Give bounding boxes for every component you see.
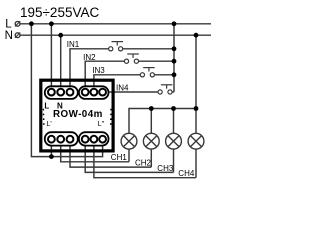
terminal circle N — [15, 33, 20, 38]
lamp E4 CH4 — [188, 133, 204, 149]
junction lamp bus 2 — [149, 106, 154, 111]
terminal circle L — [15, 21, 20, 26]
wire L' stub — [50, 139, 52, 156]
svg-text:CH2: CH2 — [135, 158, 152, 167]
wire IN3 right — [154, 74, 174, 76]
junction bus IN3 — [172, 72, 177, 77]
svg-text:IN3: IN3 — [92, 66, 105, 75]
svg-text:195÷255VAC: 195÷255VAC — [20, 5, 99, 20]
svg-text:L': L' — [47, 121, 52, 128]
terminal block top right — [79, 86, 109, 99]
wire N vertical to lamp 4 — [195, 35, 197, 133]
wire lamp 2 feed — [150, 109, 152, 134]
junction N terminal2 — [58, 33, 63, 38]
svg-text:L: L — [44, 102, 49, 111]
svg-text:L'': L'' — [98, 121, 105, 128]
junction N vertical — [194, 33, 199, 38]
pushbutton S1 IN1 — [109, 42, 123, 51]
wire N line — [20, 34, 211, 36]
junction bus IN1 — [172, 46, 177, 51]
wire lamp bus — [129, 109, 196, 134]
junction lamp bus N — [194, 106, 199, 111]
wire IN2 right — [139, 60, 175, 62]
junction L' — [49, 154, 54, 159]
junction lamp bus 3 — [171, 106, 176, 111]
wire IN1 right — [123, 48, 174, 50]
dashed housing line right — [110, 109, 112, 126]
wire left L feed down to L' — [31, 24, 102, 157]
wire L bus vertical — [173, 24, 175, 92]
svg-text:CH1: CH1 — [111, 153, 128, 162]
junction bus IN2 — [172, 59, 177, 64]
dashed housing line left — [42, 109, 45, 126]
junction L left — [29, 21, 34, 26]
wire lamp 1 out — [128, 149, 130, 162]
svg-text:CH4: CH4 — [178, 169, 195, 178]
wire CH1 — [61, 139, 129, 162]
wire lamp 4 out — [195, 149, 197, 178]
wire N to terminal 2 — [60, 35, 62, 92]
pushbutton S4 IN4 — [158, 85, 172, 94]
terminal block top left — [45, 86, 78, 99]
terminal block bottom right — [79, 132, 109, 145]
lamp E1 CH1 — [121, 133, 137, 149]
junction L terminal1 — [49, 21, 54, 26]
lamp E2 CH2 — [143, 133, 159, 149]
wire IN2 left — [85, 61, 124, 92]
svg-text:CH3: CH3 — [157, 164, 174, 173]
wire CH3 — [85, 139, 173, 172]
wire IN4 right — [172, 91, 174, 93]
svg-text:IN4: IN4 — [116, 83, 129, 92]
svg-text:IN1: IN1 — [67, 40, 80, 49]
wire CH2 — [70, 139, 151, 167]
lamp E3 CH3 — [166, 133, 182, 149]
terminal block bottom left — [45, 132, 78, 145]
wire lamp 2 out — [150, 149, 152, 167]
svg-text:IN2: IN2 — [83, 53, 96, 62]
wire L to terminal 1 — [50, 24, 52, 92]
wire IN4 left — [103, 91, 158, 93]
wire CH4 — [94, 139, 196, 178]
svg-text:N: N — [5, 30, 13, 42]
wire lamp 3 out — [173, 149, 175, 172]
svg-text:ROW-04m: ROW-04m — [53, 109, 103, 120]
pushbutton S3 IN3 — [140, 68, 154, 77]
wire IN1 left — [70, 49, 109, 92]
pushbutton S2 IN2 — [124, 54, 138, 63]
device box ROW-04m — [41, 80, 113, 151]
wire IN3 left — [94, 75, 140, 92]
wire L line — [20, 23, 211, 25]
junction L bus — [172, 21, 177, 26]
svg-text:L: L — [5, 19, 12, 31]
wire lamp 3 feed — [173, 109, 175, 134]
